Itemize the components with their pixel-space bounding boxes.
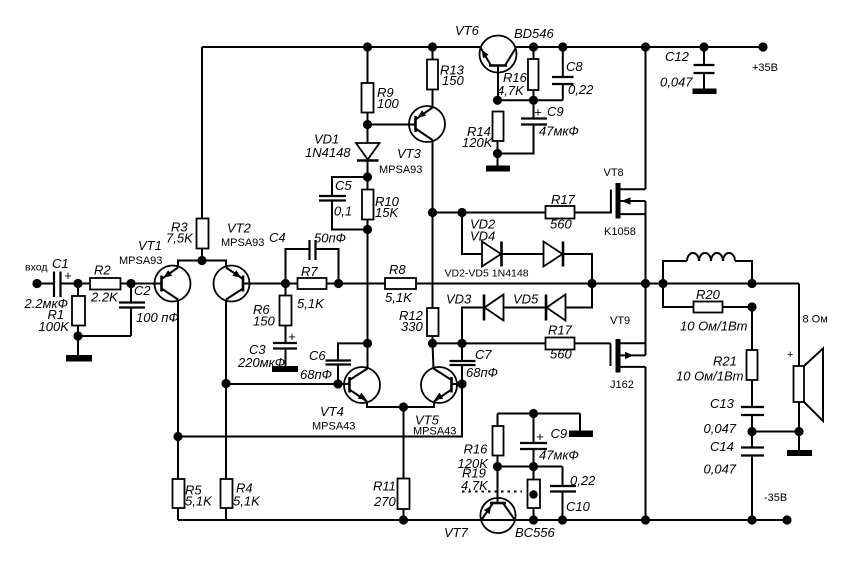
wire VT6 base node to C8 node bbox=[498, 99, 563, 101]
transistor VT1 MPSA93 bbox=[119, 238, 191, 302]
svg-text:4,7K: 4,7K bbox=[497, 83, 525, 98]
svg-text:MPSA43: MPSA43 bbox=[413, 426, 456, 438]
svg-text:0,047: 0,047 bbox=[704, 462, 737, 477]
resistor R4 5.1K bbox=[221, 479, 262, 520]
resistor R8 5.1K bbox=[385, 262, 416, 305]
svg-text:R2: R2 bbox=[94, 263, 111, 278]
svg-text:C6: C6 bbox=[309, 348, 326, 363]
node VT9 drain bottom rail junction bbox=[641, 515, 650, 524]
wire VD2 to VD4 bbox=[502, 253, 544, 255]
capacitor C12 0.047 bbox=[660, 47, 715, 90]
svg-text:MPSA93: MPSA93 bbox=[221, 237, 264, 249]
node output / L-R20 tap junction bbox=[658, 279, 667, 288]
node -35V terminal bbox=[764, 492, 792, 525]
node R14/C9 ground junction bbox=[493, 149, 502, 158]
wire VT7 base node line to C10 bbox=[498, 466, 563, 468]
ground under R14 bbox=[486, 166, 510, 172]
diode VD4 bbox=[445, 242, 564, 280]
svg-text:VD3: VD3 bbox=[446, 292, 472, 307]
svg-text:15K: 15K bbox=[375, 205, 399, 220]
svg-text:0,1: 0,1 bbox=[334, 204, 352, 219]
svg-text:1N4148: 1N4148 bbox=[305, 145, 351, 160]
resistor R1 100K bbox=[39, 284, 86, 337]
wire C13/C14 node to speaker node bbox=[752, 431, 799, 433]
svg-text:+35В: +35В bbox=[752, 62, 778, 74]
svg-text:VT7: VT7 bbox=[444, 525, 469, 540]
svg-text:+: + bbox=[536, 429, 544, 444]
node C6 top junction bbox=[363, 339, 372, 348]
ground under C3 bbox=[272, 366, 298, 372]
wire input to C1 bbox=[37, 283, 54, 285]
svg-text:270: 270 bbox=[373, 494, 396, 509]
svg-text:C7: C7 bbox=[475, 347, 492, 362]
svg-text:VT3: VT3 bbox=[397, 146, 422, 161]
svg-text:VD4: VD4 bbox=[470, 229, 495, 244]
capacitor C13 0.047 bbox=[704, 396, 765, 448]
node VT4/VT5 emitter junction bbox=[399, 402, 408, 411]
svg-text:8 Ом: 8 Ом bbox=[803, 314, 828, 326]
node R1/C2 ground junction bbox=[73, 331, 82, 340]
svg-text:MPSA93: MPSA93 bbox=[379, 164, 422, 176]
svg-text:R21: R21 bbox=[713, 354, 737, 369]
wire VT1 collector down bbox=[177, 300, 179, 437]
wire VT5 base stub bbox=[452, 383, 463, 385]
wire C9 lower right branch to bar bbox=[579, 414, 581, 431]
wire bottom rail bbox=[178, 519, 787, 521]
svg-text:MPSA43: MPSA43 bbox=[312, 421, 355, 433]
resistor R9 100 bbox=[362, 47, 400, 143]
wire top rail left segment bbox=[202, 46, 480, 48]
capacitor C9 47uF (upper) bbox=[498, 100, 579, 153]
svg-text:10 Ом/1Вт: 10 Ом/1Вт bbox=[676, 369, 744, 384]
svg-text:100K: 100K bbox=[39, 319, 71, 334]
capacitor C14 0.047 bbox=[704, 439, 765, 520]
svg-text:150: 150 bbox=[442, 73, 464, 88]
diode VD2 bbox=[470, 217, 502, 267]
svg-text:330: 330 bbox=[401, 319, 423, 334]
wire VD5 to output node bbox=[566, 284, 593, 308]
node C13/C14/speaker junction bbox=[747, 427, 756, 436]
capacitor C4 50pF bypass over R7 bbox=[269, 230, 346, 284]
diode VD1 1N4148 bbox=[305, 132, 380, 178]
svg-text:VD5: VD5 bbox=[513, 292, 539, 307]
svg-text:0,047: 0,047 bbox=[660, 75, 693, 90]
wire VD2 riser bbox=[462, 213, 482, 255]
resistor R3 7.5K bbox=[166, 219, 209, 261]
capacitor C6 68pF bbox=[300, 343, 368, 384]
svg-text:7,5K: 7,5K bbox=[166, 231, 194, 246]
wire feedback line to VT5 base riser bbox=[178, 384, 462, 437]
capacitor C1 2.2uF bbox=[24, 256, 73, 311]
svg-text:VD2-VD5 1N4148: VD2-VD5 1N4148 bbox=[445, 268, 529, 280]
svg-text:VT4: VT4 bbox=[320, 404, 344, 419]
svg-text:+: + bbox=[787, 349, 793, 361]
wire C1 to R2 bbox=[61, 283, 91, 285]
node C14 bottom rail junction bbox=[747, 515, 756, 524]
svg-text:560: 560 bbox=[550, 217, 572, 232]
speaker 8 Ohm bbox=[787, 314, 828, 422]
node VT7 block top / C9 junction bbox=[529, 409, 538, 418]
node VD1/C5/R10 junction bbox=[363, 172, 372, 181]
node VT6 base / R14 junction bbox=[493, 96, 502, 105]
node R9/VD1/VT3 base junction bbox=[363, 120, 372, 129]
wire main mid line R8 to output node bbox=[416, 283, 799, 285]
svg-text:0,047: 0,047 bbox=[704, 421, 737, 436]
wire VT2 collector down bbox=[225, 300, 227, 480]
svg-text:BC556: BC556 bbox=[515, 525, 556, 540]
node C10 bottom rail junction bbox=[558, 515, 567, 524]
node tail junction R3 bbox=[197, 256, 206, 265]
wire VT9 gate line bbox=[433, 342, 546, 344]
wire VT9 source to output bbox=[645, 284, 647, 356]
node VT3 collector / gate line junction bbox=[428, 208, 437, 217]
node R12 / VT5 collector / gate line junction bbox=[428, 339, 437, 348]
transistor VT7 BC556 bbox=[444, 467, 556, 541]
resistor R7 5.1K bbox=[297, 264, 327, 311]
wire VAS input vertical down to C6 node bbox=[367, 230, 369, 344]
svg-text:560: 560 bbox=[550, 347, 572, 362]
transistor VT5 MPSA43 bbox=[413, 367, 457, 438]
svg-text:MPSA93: MPSA93 bbox=[119, 255, 162, 267]
svg-text:68пФ: 68пФ bbox=[300, 367, 332, 382]
ground under speaker bbox=[787, 450, 812, 456]
capacitor C2 100pF bbox=[78, 283, 179, 336]
svg-text:C14: C14 bbox=[710, 439, 734, 454]
capacitor C3 220uF bbox=[237, 329, 297, 370]
wire VT2 collector to VT4 base bbox=[226, 383, 350, 385]
node output / VT8 source junction bbox=[641, 279, 650, 288]
wire junction to VT3 base bbox=[368, 124, 416, 126]
wire R7 to R8 bbox=[327, 283, 386, 285]
node output right junction bbox=[747, 279, 756, 288]
svg-text:68пФ: 68пФ bbox=[466, 365, 498, 380]
svg-text:10 Ом/1Вт: 10 Ом/1Вт bbox=[680, 319, 748, 334]
svg-text:J162: J162 bbox=[610, 379, 634, 391]
svg-text:+: + bbox=[534, 105, 542, 120]
svg-text:0,22: 0,22 bbox=[570, 473, 596, 488]
resistor R12 330 bbox=[399, 308, 439, 343]
resistor R17 560 (upper) bbox=[546, 192, 611, 232]
node output / diode chain junction bbox=[587, 279, 596, 288]
resistor R20 10R/1W bbox=[663, 284, 752, 334]
node top rail R16 junction bbox=[529, 42, 538, 51]
node gate line / C7 junction bbox=[457, 339, 466, 348]
wire VD3 riser bbox=[462, 308, 484, 344]
wire top rail right segment bbox=[516, 46, 763, 48]
wire VT1 emitter to tail bbox=[178, 261, 202, 268]
svg-text:C9: C9 bbox=[547, 104, 564, 119]
wire output to speaker bbox=[798, 284, 800, 367]
resistor R21 10R/1W bbox=[676, 307, 758, 407]
node R19 bottom rail junction bbox=[529, 515, 538, 524]
svg-text:C10: C10 bbox=[566, 499, 591, 514]
wire R2 to VT1 base bbox=[121, 283, 162, 285]
ground under C12 bbox=[693, 89, 717, 95]
node R11 bottom rail junction bbox=[399, 515, 408, 524]
node R10/C5 bottom junction bbox=[363, 225, 372, 234]
svg-text:100 пФ: 100 пФ bbox=[136, 310, 179, 325]
node R2/C2/VT1 junction bbox=[126, 279, 135, 288]
wire VT9 drain to bottom rail bbox=[645, 367, 647, 520]
svg-text:C8: C8 bbox=[566, 59, 583, 74]
node speaker ground junction bbox=[794, 427, 803, 436]
svg-text:C4: C4 bbox=[269, 230, 286, 245]
svg-text:-35В: -35В bbox=[764, 492, 787, 504]
svg-text:+: + bbox=[64, 268, 72, 283]
svg-text:VT8: VT8 bbox=[604, 167, 624, 179]
capacitor C8 0.22 bbox=[552, 47, 594, 100]
wire VD4 to output node bbox=[563, 254, 592, 284]
wire VT4 emitter to common bbox=[367, 402, 404, 408]
svg-text:R17: R17 bbox=[551, 192, 576, 207]
transistor VT6 BD546 bbox=[455, 23, 555, 100]
svg-text:5,1K: 5,1K bbox=[297, 296, 325, 311]
wire speaker to ground junction bbox=[798, 402, 800, 450]
wire VT4 collector up bbox=[367, 343, 369, 368]
wire R3 branch vertical from top rail bbox=[201, 47, 203, 219]
transistor VT2 MPSA93 bbox=[214, 221, 265, 302]
resistor R14 120K bbox=[462, 112, 504, 154]
wire VT5 collector up bbox=[433, 343, 434, 368]
svg-text:120K: 120K bbox=[462, 135, 494, 150]
svg-text:+: + bbox=[288, 329, 296, 344]
node VT1 collector / R5 / feedback junction bbox=[173, 432, 182, 441]
wire VT2 emitter to tail bbox=[202, 261, 226, 268]
svg-text:C12: C12 bbox=[665, 49, 690, 64]
wire VT2 base to junction A bbox=[243, 283, 298, 285]
resistor R5 5.1K bbox=[173, 437, 214, 521]
svg-text:VT2: VT2 bbox=[227, 221, 252, 236]
svg-text:R7: R7 bbox=[301, 264, 318, 279]
inductor L1 bbox=[663, 253, 752, 284]
node main line junction A (R6/R7) bbox=[281, 279, 290, 288]
node top rail R13 junction bbox=[428, 42, 437, 51]
node +35V terminal bbox=[752, 42, 778, 74]
node top rail C12 junction bbox=[699, 42, 708, 51]
wire R1 junction to ground bbox=[77, 336, 79, 355]
resistor R17 560 (lower) bbox=[546, 323, 611, 362]
svg-text:BD546: BD546 bbox=[514, 26, 555, 41]
node main line junction B (C4/R7) bbox=[334, 279, 343, 288]
wire VT8 gate line bbox=[433, 212, 546, 214]
resistor R16 4.7K (upper) bbox=[497, 47, 539, 100]
svg-text:150: 150 bbox=[253, 314, 275, 329]
svg-text:C5: C5 bbox=[335, 178, 352, 193]
svg-text:VT9: VT9 bbox=[610, 315, 630, 327]
node C1/R1/R2 junction bbox=[73, 279, 82, 288]
ground bar right of C9 lower bbox=[569, 431, 593, 438]
node C9 lower bottom / R19 junction bbox=[529, 462, 538, 471]
capacitor C9 47uF (lower) bbox=[520, 414, 579, 467]
resistor R6 150 bbox=[253, 284, 292, 344]
node input terminal bbox=[25, 262, 47, 289]
svg-text:2.2K: 2.2K bbox=[90, 290, 119, 305]
capacitor C10 0.22 bbox=[550, 467, 596, 521]
diode VD3 bbox=[446, 292, 504, 321]
node VT2 collector / R4 / VT4 base junction bbox=[221, 379, 230, 388]
svg-text:R17: R17 bbox=[548, 323, 573, 338]
node C7 / VT5 base / feedback junction bbox=[457, 379, 466, 388]
transistor VT8 K1058 (N-MOSFET) bbox=[604, 167, 646, 238]
node top rail R9 junction bbox=[363, 42, 372, 51]
svg-text:R8: R8 bbox=[389, 262, 406, 277]
wire VT5 emitter to common bbox=[404, 402, 435, 408]
node R16 lower bottom / VT7 base junction bbox=[493, 462, 502, 471]
wire VT8 source to output bbox=[645, 201, 647, 284]
resistor R19 4.7K trimmer bbox=[461, 466, 540, 521]
node gate line / VD2 riser junction bbox=[457, 208, 466, 217]
node top rail C8 junction bbox=[558, 42, 567, 51]
wire VT8 drain to top rail bbox=[645, 47, 647, 189]
wire VT7 block top line bbox=[498, 413, 581, 415]
svg-text:R16: R16 bbox=[464, 442, 489, 457]
svg-text:R11: R11 bbox=[373, 479, 396, 494]
svg-text:5,1K: 5,1K bbox=[185, 494, 213, 509]
resistor R13 150 bbox=[427, 47, 465, 108]
svg-text:C2: C2 bbox=[134, 283, 151, 298]
svg-text:5,1K: 5,1K bbox=[233, 494, 261, 509]
svg-text:50пФ: 50пФ bbox=[314, 231, 346, 246]
wire VD3 to VD5 bbox=[504, 307, 547, 309]
ground under R1 bbox=[66, 355, 92, 362]
svg-text:VT1: VT1 bbox=[138, 238, 162, 253]
transistor VT9 J162 (P-MOSFET) bbox=[610, 315, 646, 391]
svg-text:VT6: VT6 bbox=[455, 23, 480, 38]
wire VT3 collector down bbox=[432, 140, 434, 308]
svg-text:вход: вход bbox=[25, 262, 47, 274]
svg-text:0,22: 0,22 bbox=[568, 82, 594, 97]
diode VD5 bbox=[513, 292, 566, 321]
svg-text:C9: C9 bbox=[551, 426, 568, 441]
resistor R11 270 bbox=[373, 407, 410, 520]
node R16 bottom junction bbox=[529, 96, 538, 105]
resistor R2 2.2K bbox=[90, 263, 121, 305]
transistor VT3 MPSA93 bbox=[379, 106, 445, 176]
svg-text:47мкФ: 47мкФ bbox=[539, 124, 579, 139]
svg-text:C13: C13 bbox=[710, 396, 735, 411]
transistor VT4 MPSA43 bbox=[312, 367, 380, 433]
capacitor C7 68pF bbox=[450, 343, 498, 384]
capacitor C5 0.1 bypass over R10 bbox=[319, 177, 368, 230]
node C6 / VT4 base junction bbox=[333, 379, 342, 388]
node R20/R21 junction bbox=[747, 302, 756, 311]
resistor R16 120K (lower) bbox=[458, 414, 504, 472]
svg-text:100: 100 bbox=[377, 96, 399, 111]
resistor R10 15K bbox=[362, 177, 400, 230]
svg-text:47мкФ: 47мкФ bbox=[539, 448, 579, 463]
node top rail VT8 drain junction bbox=[641, 42, 650, 51]
svg-text:R20: R20 bbox=[696, 287, 721, 302]
svg-text:K1058: K1058 bbox=[604, 226, 636, 238]
wire to ground under R14 bbox=[497, 154, 499, 166]
svg-text:5,1K: 5,1K bbox=[385, 290, 413, 305]
